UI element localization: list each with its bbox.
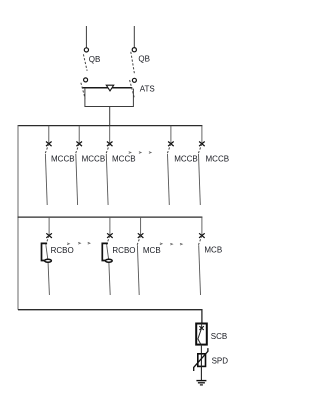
wire: ATS output to bus 1: [109, 107, 111, 127]
svg-text:ATS: ATS: [140, 84, 155, 93]
svg-text:MCB: MCB: [143, 246, 161, 255]
svg-text:QB: QB: [89, 55, 101, 64]
wire: left riser: [17, 125, 19, 310]
breaker MCB 1: [137, 217, 143, 295]
svg-text:MCB: MCB: [204, 245, 222, 254]
svg-text:MCCB: MCCB: [51, 154, 75, 163]
svg-text:MCCB: MCCB: [82, 154, 106, 163]
ATS: left blade: [81, 83, 85, 99]
wire: bottom rail to SCB branch: [18, 310, 202, 324]
wire: SPD to ground: [200, 366, 202, 380]
surge protective device SPD (box): [194, 348, 208, 371]
svg-text:RCBO: RCBO: [51, 246, 74, 255]
ellipsis marks row 1 (repeated feeders): [129, 152, 151, 154]
disconnect switch QB (right): top contact circle: [132, 48, 136, 52]
disconnect switch QB (left): blade: [83, 54, 87, 71]
ATS: left input contact circle: [84, 78, 88, 82]
ellipsis marks row 2 right (repeated feeders): [160, 243, 182, 245]
breaker RCBO 2: [102, 217, 112, 295]
ATS: actuator triangle: [106, 85, 113, 91]
ellipsis marks row 2 left (repeated feeders): [67, 242, 90, 244]
disconnect switch QB (right): blade: [131, 52, 135, 74]
ground: [196, 381, 206, 385]
ATS: right input contact circle: [132, 78, 136, 82]
breaker MCCB 5: [198, 126, 204, 205]
breaker MCCB 3: [106, 126, 112, 205]
breaker MCCB 1: [45, 126, 51, 205]
wire: SCB to SPD: [200, 345, 202, 354]
bus 1: [18, 125, 203, 127]
svg-text:RCBO: RCBO: [112, 246, 135, 255]
ATS: common bar: [82, 87, 132, 89]
svg-text:QB: QB: [138, 54, 150, 63]
breaker RCBO 1: [42, 217, 52, 295]
wire: left source feeder: [85, 26, 87, 48]
svg-text:SCB: SCB: [211, 332, 227, 341]
breaker MCCB 4: [167, 126, 173, 205]
svg-text:MCCB: MCCB: [206, 154, 230, 163]
svg-text:MCCB: MCCB: [112, 154, 136, 163]
breaker MCCB 2: [76, 126, 82, 205]
breaker MCB 2: [199, 217, 205, 295]
svg-text:SPD: SPD: [212, 357, 229, 366]
svg-text:MCCB: MCCB: [174, 154, 198, 163]
wire: right source feeder: [133, 26, 135, 48]
ATS: right blade: [130, 80, 135, 99]
bus 2: [18, 216, 203, 218]
breaker SCB (box): [196, 324, 207, 345]
ATS: output U bracket: [85, 89, 133, 107]
disconnect switch QB (left): top contact circle: [84, 48, 88, 52]
